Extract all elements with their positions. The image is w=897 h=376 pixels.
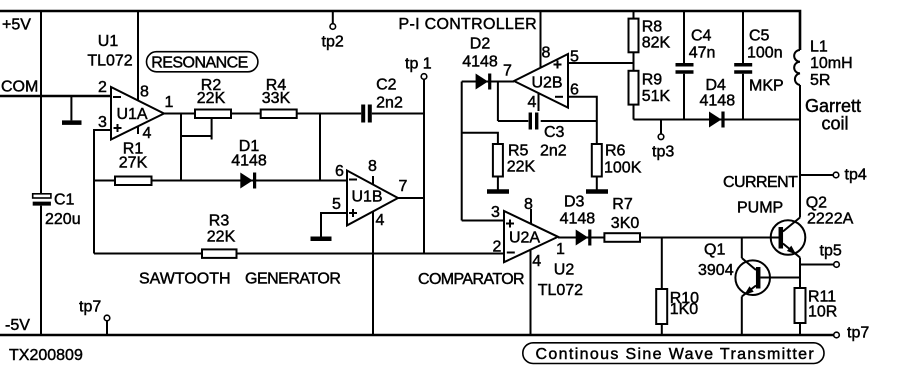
svg-text:7: 7 bbox=[399, 178, 408, 195]
svg-text:coil: coil bbox=[822, 114, 849, 134]
svg-text:4148: 4148 bbox=[462, 54, 498, 71]
svg-text:100n: 100n bbox=[747, 45, 783, 62]
svg-text:Q2: Q2 bbox=[806, 195, 827, 212]
svg-text:U1: U1 bbox=[98, 33, 119, 50]
svg-text:Continous Sine Wave Transmitte: Continous Sine Wave Transmitter bbox=[536, 346, 816, 363]
svg-text:220u: 220u bbox=[45, 211, 81, 228]
svg-text:1K0: 1K0 bbox=[670, 301, 699, 318]
svg-text:6: 6 bbox=[570, 82, 579, 99]
svg-text:4148: 4148 bbox=[231, 153, 267, 170]
svg-text:2: 2 bbox=[98, 79, 107, 96]
svg-text:10mH: 10mH bbox=[810, 55, 853, 72]
svg-text:C1: C1 bbox=[54, 192, 75, 209]
svg-text:22K: 22K bbox=[197, 90, 226, 107]
svg-text:L1: L1 bbox=[810, 39, 828, 56]
svg-text:4148: 4148 bbox=[560, 211, 596, 228]
svg-text:5: 5 bbox=[332, 196, 341, 213]
svg-text:4: 4 bbox=[143, 125, 152, 142]
svg-text:C2: C2 bbox=[376, 77, 397, 94]
svg-text:tp2: tp2 bbox=[322, 34, 344, 51]
svg-text:D4: D4 bbox=[706, 77, 727, 94]
svg-text:2: 2 bbox=[493, 239, 502, 256]
svg-text:8: 8 bbox=[140, 84, 149, 101]
svg-text:2222A: 2222A bbox=[807, 211, 854, 228]
svg-text:3: 3 bbox=[98, 114, 107, 131]
svg-text:COM: COM bbox=[1, 79, 38, 96]
svg-text:TX200809: TX200809 bbox=[9, 347, 83, 364]
svg-text:R9: R9 bbox=[642, 72, 663, 89]
svg-text:U1A: U1A bbox=[116, 106, 147, 123]
svg-text:U1B: U1B bbox=[351, 189, 382, 206]
svg-text:3904: 3904 bbox=[698, 262, 734, 279]
svg-text:D2: D2 bbox=[470, 35, 491, 52]
svg-text:CURRENT: CURRENT bbox=[723, 174, 798, 191]
svg-text:1: 1 bbox=[165, 94, 174, 111]
svg-text:tp3: tp3 bbox=[652, 144, 674, 161]
svg-text:tp5: tp5 bbox=[820, 243, 842, 260]
svg-text:TL072: TL072 bbox=[538, 282, 583, 299]
svg-text:2n2: 2n2 bbox=[540, 143, 567, 160]
svg-text:Q1: Q1 bbox=[704, 242, 725, 259]
svg-text:10R: 10R bbox=[808, 304, 837, 321]
svg-text:tp4: tp4 bbox=[845, 167, 867, 184]
svg-text:1: 1 bbox=[556, 241, 565, 258]
svg-text:22K: 22K bbox=[207, 229, 236, 246]
svg-text:6: 6 bbox=[335, 163, 344, 180]
svg-text:3K0: 3K0 bbox=[611, 215, 640, 232]
svg-text:2n2: 2n2 bbox=[376, 95, 403, 112]
svg-text:8: 8 bbox=[524, 196, 533, 213]
svg-text:47n: 47n bbox=[689, 45, 716, 62]
svg-text:33K: 33K bbox=[262, 90, 291, 107]
svg-text:+5V: +5V bbox=[2, 17, 31, 34]
svg-text:R3: R3 bbox=[209, 213, 230, 230]
svg-text:PUMP: PUMP bbox=[737, 200, 783, 217]
svg-text:4: 4 bbox=[532, 253, 541, 270]
svg-text:R8: R8 bbox=[642, 19, 663, 36]
svg-text:8: 8 bbox=[542, 45, 551, 62]
svg-text:GENERATOR: GENERATOR bbox=[245, 271, 340, 288]
svg-text:tp7: tp7 bbox=[847, 325, 869, 342]
svg-text:U2: U2 bbox=[554, 262, 575, 279]
svg-text:7: 7 bbox=[503, 63, 512, 80]
svg-text:5R: 5R bbox=[810, 72, 830, 89]
svg-text:C5: C5 bbox=[749, 28, 770, 45]
svg-text:27K: 27K bbox=[119, 155, 148, 172]
svg-text:82K: 82K bbox=[642, 35, 671, 52]
svg-text:3: 3 bbox=[491, 204, 500, 221]
svg-text:R5: R5 bbox=[508, 143, 529, 160]
svg-text:SAWTOOTH: SAWTOOTH bbox=[139, 271, 231, 288]
svg-text:tp7: tp7 bbox=[79, 299, 101, 316]
svg-text:U2B: U2B bbox=[531, 75, 562, 92]
svg-text:TL072: TL072 bbox=[87, 53, 132, 70]
svg-text:U2A: U2A bbox=[509, 230, 540, 247]
svg-text:R6: R6 bbox=[605, 143, 626, 160]
svg-text:8: 8 bbox=[368, 158, 377, 175]
svg-text:4: 4 bbox=[528, 94, 537, 111]
svg-text:C4: C4 bbox=[691, 28, 712, 45]
svg-text:4: 4 bbox=[376, 212, 385, 229]
svg-text:100K: 100K bbox=[604, 160, 642, 177]
svg-text:D3: D3 bbox=[564, 194, 585, 211]
svg-text:P-I CONTROLLER: P-I CONTROLLER bbox=[399, 16, 537, 33]
svg-text:51K: 51K bbox=[642, 88, 671, 105]
svg-text:-5V: -5V bbox=[5, 317, 30, 334]
svg-text:22K: 22K bbox=[507, 159, 536, 176]
svg-text:MKP: MKP bbox=[749, 78, 784, 95]
svg-text:RESONANCE: RESONANCE bbox=[151, 55, 247, 72]
svg-text:C3: C3 bbox=[544, 124, 565, 141]
svg-text:5: 5 bbox=[570, 49, 579, 66]
svg-text:tp 1: tp 1 bbox=[405, 56, 432, 73]
svg-text:R7: R7 bbox=[612, 196, 633, 213]
svg-text:4148: 4148 bbox=[700, 93, 736, 110]
svg-text:COMPARATOR: COMPARATOR bbox=[418, 271, 524, 288]
